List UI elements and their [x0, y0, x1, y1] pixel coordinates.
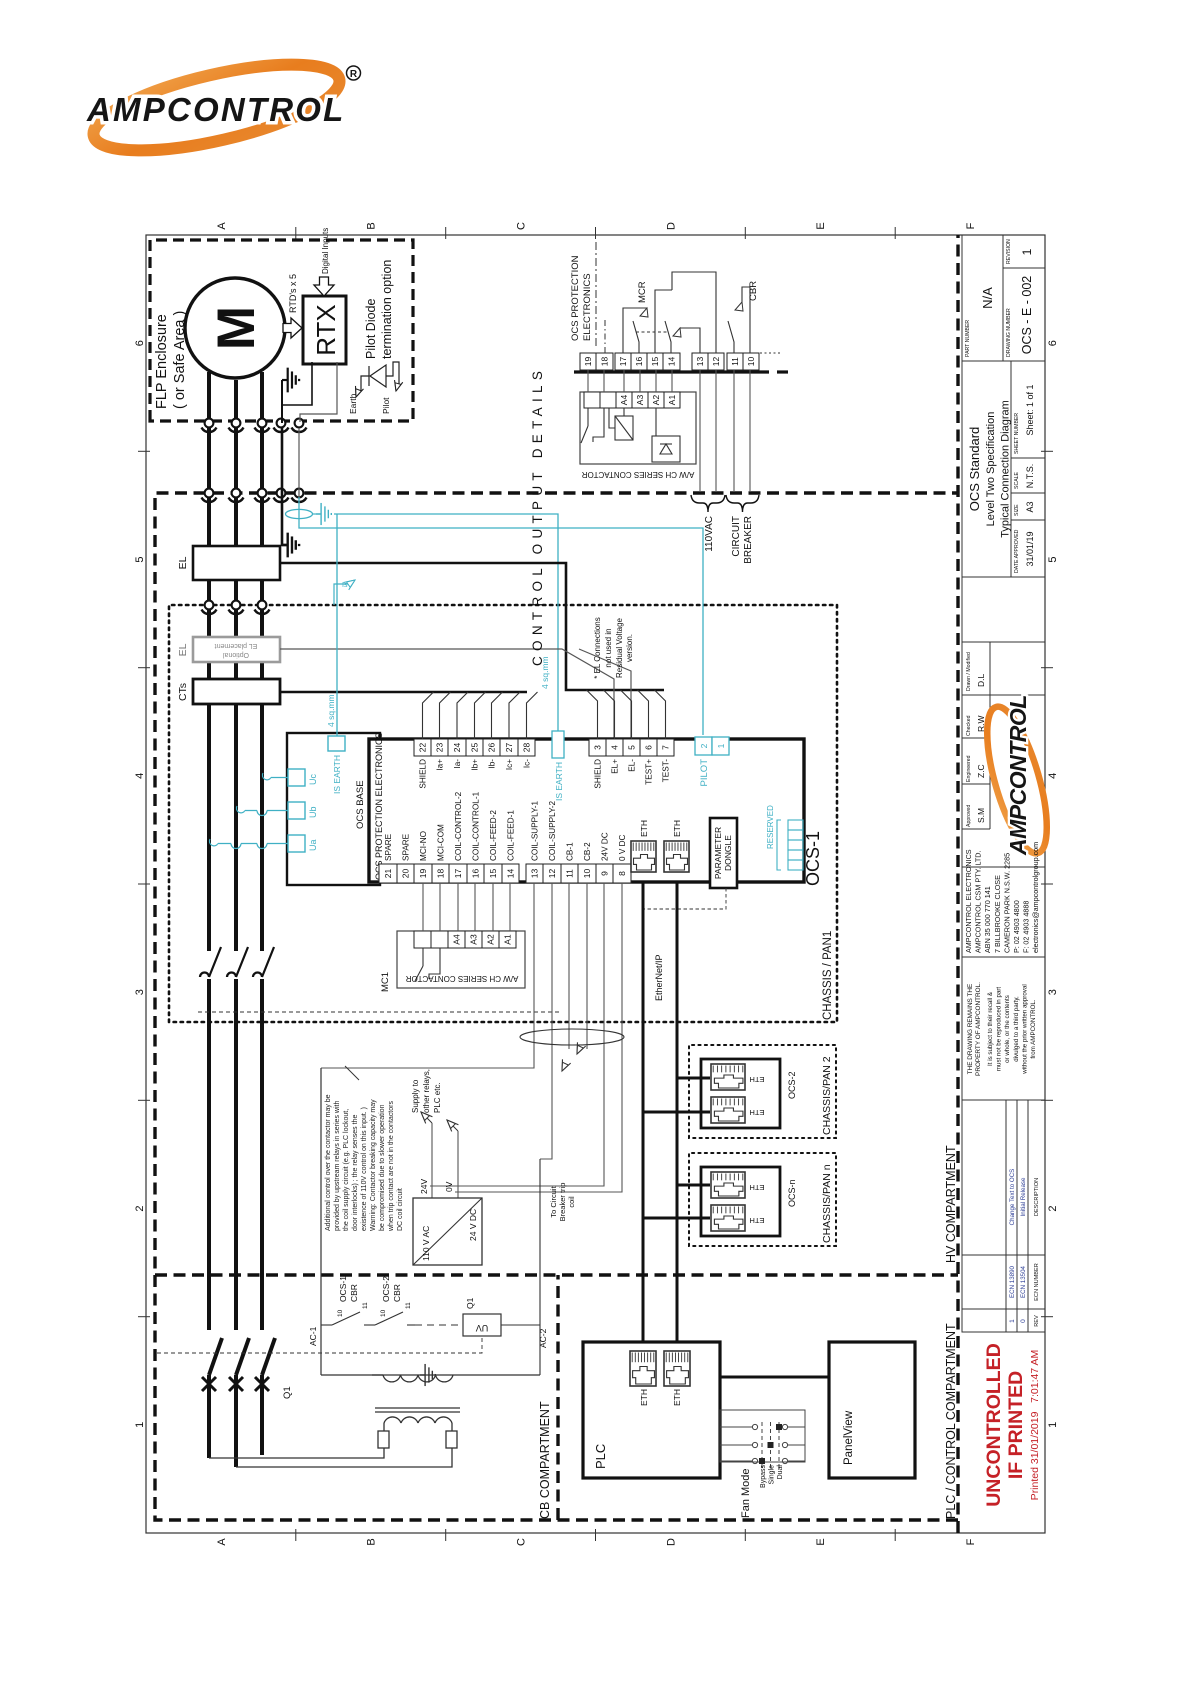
svg-text:CBR: CBR: [748, 281, 759, 301]
svg-text:ETH: ETH: [672, 820, 682, 837]
svg-text:Breaker trip: Breaker trip: [558, 1183, 567, 1222]
svg-text:7 BILLBROOKE CLOSE: 7 BILLBROOKE CLOSE: [993, 875, 1002, 953]
svg-text:24 V DC: 24 V DC: [468, 1209, 478, 1241]
svg-text:15: 15: [650, 357, 660, 367]
CHASSIS/PAN n: [689, 1153, 836, 1246]
svg-text:19: 19: [583, 357, 593, 367]
svg-text:A4: A4: [619, 395, 629, 406]
svg-text:OCS-1: OCS-1: [803, 831, 823, 886]
svg-text:2: 2: [699, 743, 709, 748]
svg-text:ETH: ETH: [672, 1389, 682, 1406]
EL bundle wire to OCS terminals 3-7: [280, 563, 664, 690]
svg-text:AMPCONTROL: AMPCONTROL: [1005, 695, 1031, 856]
svg-text:IS EARTH: IS EARTH: [332, 755, 342, 794]
CHASSIS/PAN 2: [689, 1045, 836, 1138]
svg-text:COIL-SUPPLY-2: COIL-SUPPLY-2: [548, 800, 557, 861]
svg-text:EL: EL: [177, 556, 189, 569]
svg-text:EL: EL: [177, 643, 189, 656]
svg-text:THE DRAWING REMAINS THE: THE DRAWING REMAINS THE: [967, 984, 974, 1075]
A/W CH series contactor (MC1 coil) box: [397, 931, 525, 988]
pilot termination diode: [361, 362, 399, 391]
svg-text:* EL Connections: * EL Connections: [593, 617, 602, 679]
svg-text:9: 9: [600, 871, 610, 876]
svg-text:5: 5: [627, 745, 637, 750]
svg-text:A1: A1: [667, 395, 677, 406]
svg-text:10: 10: [380, 1309, 387, 1317]
4 sq.mm IS earth cyan wire: [334, 514, 558, 731]
svg-text:OCS-2: OCS-2: [787, 1071, 797, 1099]
svg-text:4: 4: [1047, 773, 1059, 779]
svg-text:Pilot Diode: Pilot Diode: [364, 299, 378, 359]
MC1 auxiliary contact: [415, 948, 440, 981]
svg-text:A1: A1: [503, 934, 513, 945]
svg-text:OCS-1: OCS-1: [338, 1276, 348, 1302]
svg-text:A3: A3: [1025, 501, 1035, 512]
output terminal strip baseline: [574, 370, 769, 373]
drawing frame border: [146, 235, 1045, 1533]
svg-text:1: 1: [1020, 248, 1034, 255]
svg-text:AMPCONTROL: AMPCONTROL: [86, 91, 345, 128]
svg-text:MC1: MC1: [380, 972, 391, 992]
svg-text:SHIELD: SHIELD: [594, 759, 603, 789]
svg-text:from AMPCONTROL.: from AMPCONTROL.: [1030, 999, 1037, 1058]
svg-text:Ub: Ub: [308, 806, 318, 818]
control transformer: [209, 1375, 540, 1467]
svg-text:divulged to a third party,: divulged to a third party,: [1013, 996, 1020, 1062]
svg-text:COIL-FEED-2: COIL-FEED-2: [489, 810, 498, 861]
svg-text:110 V AC: 110 V AC: [421, 1226, 431, 1261]
svg-text:Supply to: Supply to: [411, 1079, 420, 1113]
MC1 coil wires from terminals 19-14: [423, 883, 510, 931]
svg-text:11: 11: [730, 357, 740, 366]
svg-text:FLP Enclosure: FLP Enclosure: [154, 314, 170, 409]
svg-text:5: 5: [1047, 556, 1059, 562]
three phase motor supply wires: [209, 372, 275, 1467]
svg-text:N/A: N/A: [980, 287, 995, 309]
svg-text:ABN 35 000 770 141: ABN 35 000 770 141: [983, 886, 992, 953]
pilot terminals 2,1 (cyan): [695, 737, 712, 755]
IS EARTH terminal (cyan): [552, 731, 564, 758]
svg-text:1: 1: [716, 743, 726, 748]
svg-text:DESCRIPTION: DESCRIPTION: [1034, 1178, 1040, 1216]
CTs box: [193, 679, 280, 704]
svg-text:AMPCONTROL CSM PTY. LTD.: AMPCONTROL CSM PTY. LTD.: [974, 850, 983, 953]
CHASSIS / PAN1 dotted boundary: [169, 605, 837, 1022]
svg-text:Q1: Q1: [282, 1386, 293, 1399]
svg-text:Ua: Ua: [308, 839, 318, 851]
RTX box: [303, 296, 346, 364]
svg-text:CB-1: CB-1: [566, 842, 575, 861]
svg-text:A: A: [216, 1538, 228, 1546]
svg-text:RESERVED: RESERVED: [766, 805, 775, 849]
cable bushings at boundary crossings: [205, 419, 214, 428]
svg-text:1: 1: [1047, 1422, 1059, 1428]
svg-text:16: 16: [634, 357, 644, 367]
PLC: [583, 1342, 720, 1478]
svg-text:EL-: EL-: [628, 759, 637, 772]
svg-text:R: R: [350, 69, 358, 80]
svg-text:REV: REV: [1034, 1315, 1040, 1327]
svg-text:B: B: [366, 222, 378, 229]
svg-text:CB COMPARTMENT: CB COMPARTMENT: [538, 1401, 552, 1519]
svg-text:It is subject to their recall: It is subject to their recall &: [987, 991, 994, 1066]
reserved connector (cyan): [777, 820, 803, 870]
svg-text:SHEET NUMBER: SHEET NUMBER: [1014, 413, 1020, 454]
svg-text:ETH: ETH: [750, 1183, 765, 1192]
svg-text:F: 02 4903 4888: F: 02 4903 4888: [1022, 901, 1031, 953]
svg-text:D: D: [665, 1538, 677, 1546]
svg-text:Ib+: Ib+: [471, 759, 480, 771]
MC1 mechanical linkage dashed: [198, 1011, 560, 1013]
svg-text:15: 15: [488, 869, 498, 879]
svg-text:11: 11: [362, 1302, 369, 1309]
svg-text:4: 4: [610, 745, 620, 750]
svg-text:must not be reproduced in part: must not be reproduced in part: [996, 987, 1003, 1072]
svg-text:Checked: Checked: [966, 715, 972, 736]
CBR relay contact: [728, 287, 750, 353]
earth ground inside FLP: [281, 380, 283, 423]
svg-text:IF PRINTED: IF PRINTED: [1005, 1371, 1027, 1479]
svg-text:P: 02 4903 4800: P: 02 4903 4800: [1012, 900, 1021, 953]
svg-text:OCS PROTECTION: OCS PROTECTION: [570, 255, 581, 341]
digital inputs arrow: [314, 277, 334, 296]
svg-text:AC-1: AC-1: [308, 1326, 318, 1346]
svg-text:A3: A3: [469, 934, 479, 945]
svg-text:or whole, or the contents: or whole, or the contents: [1004, 995, 1011, 1063]
svg-text:24V DC: 24V DC: [601, 832, 610, 861]
svg-text:Typical Connection Diagram: Typical Connection Diagram: [1000, 400, 1012, 538]
svg-text:CAMERON PARK N.S.W. 2285: CAMERON PARK N.S.W. 2285: [1002, 853, 1011, 953]
svg-text:19: 19: [418, 869, 428, 879]
svg-text:provided by upstream relays in: provided by upstream relays in series wi…: [334, 1101, 341, 1231]
svg-text:UV: UV: [476, 1323, 489, 1333]
svg-text:OCS-n: OCS-n: [787, 1179, 797, 1207]
svg-text:PLC: PLC: [593, 1444, 608, 1469]
svg-text:2: 2: [134, 1205, 146, 1211]
svg-text:PLC etc.: PLC etc.: [433, 1082, 442, 1113]
svg-text:SIZE: SIZE: [1014, 504, 1020, 516]
svg-text:the coil supply circuit (e.g.: the coil supply circuit (e.g. PLC lockou…: [343, 1109, 350, 1231]
svg-text:ECN 13890: ECN 13890: [1009, 1265, 1016, 1298]
svg-text:Residual Voltage: Residual Voltage: [615, 617, 624, 678]
svg-text:other relays,: other relays,: [422, 1069, 431, 1113]
FLP enclosure dashed boundary: [150, 240, 413, 421]
svg-text:ELECTRONICS: ELECTRONICS: [582, 273, 593, 341]
svg-text:3: 3: [593, 745, 603, 750]
optional EL gray wires to terminals 4,5: [280, 649, 631, 739]
OCS-1 protection electronics box: [369, 739, 804, 882]
svg-text:TEST-: TEST-: [662, 759, 671, 782]
svg-text:18: 18: [600, 357, 610, 367]
svg-text:22: 22: [418, 743, 428, 753]
svg-text:Sheet: 1 of 1: Sheet: 1 of 1: [1025, 384, 1035, 435]
svg-text:be compromised due to slower o: be compromised due to slower operation: [379, 1104, 386, 1231]
ethernet trunk wires: [643, 882, 710, 1350]
svg-text:28: 28: [522, 743, 532, 753]
svg-text:17: 17: [618, 357, 628, 367]
svg-text:10: 10: [337, 1309, 344, 1317]
svg-text:M: M: [207, 306, 266, 350]
svg-text:12: 12: [711, 357, 721, 367]
svg-text:10: 10: [582, 869, 592, 879]
IS earth ground (cyan): [313, 513, 321, 515]
OCS-1 ETH ports: [631, 841, 656, 872]
Q1 circuit breaker poles (X marks): [202, 1377, 216, 1391]
optional EL placement box (gray): [193, 637, 280, 662]
svg-text:6: 6: [134, 340, 146, 346]
svg-text:OCS - E - 002: OCS - E - 002: [1020, 276, 1034, 355]
svg-text:Z.C: Z.C: [976, 764, 986, 778]
svg-text:CONTROL OUTPUT DETAILS: CONTROL OUTPUT DETAILS: [530, 366, 545, 666]
svg-text:SHIELD: SHIELD: [419, 759, 428, 789]
svg-text:A: A: [216, 222, 228, 230]
svg-text:Warning: Contactor breaking ca: Warning: Contactor breaking capacity may: [370, 1099, 377, 1231]
earth wire to HV ground: [282, 427, 288, 545]
svg-text:110VAC: 110VAC: [704, 516, 715, 552]
svg-text:18: 18: [436, 869, 446, 879]
svg-text:A/W CH SERIES CONTACTOR: A/W CH SERIES CONTACTOR: [581, 470, 694, 479]
svg-text:ECN 13504: ECN 13504: [1020, 1265, 1027, 1298]
svg-text:Change Text to OCS: Change Text to OCS: [1009, 1169, 1016, 1226]
svg-text:coil: coil: [567, 1196, 576, 1208]
parameter dongle: [710, 818, 737, 888]
svg-text:ETH: ETH: [750, 1216, 765, 1225]
svg-text:SPARE: SPARE: [384, 833, 393, 861]
switchboard enclosure dashed boundary: [155, 235, 958, 1533]
svg-text:door interlocks) ; the relay s: door interlocks) ; the relay senses the: [352, 1115, 359, 1231]
to circuit breaker trip coil arrows: [558, 1059, 571, 1073]
svg-text:SPARE: SPARE: [402, 833, 411, 861]
title block Ampcontrol logo: [975, 695, 1059, 859]
svg-text:E: E: [815, 1538, 827, 1545]
motor M: [185, 278, 285, 378]
svg-text:Ic-: Ic-: [523, 759, 532, 768]
svg-text:0 V DC: 0 V DC: [618, 835, 627, 861]
svg-text:HV COMPARTMENT: HV COMPARTMENT: [944, 1145, 958, 1263]
svg-text:version.: version.: [625, 634, 634, 662]
svg-text:A/W CH SERIES CONTACTOR: A/W CH SERIES CONTACTOR: [405, 974, 518, 983]
svg-text:PART NUMBER: PART NUMBER: [965, 320, 971, 357]
svg-text:Initial Release: Initial Release: [1020, 1177, 1027, 1216]
OCS output terminals 21-8: [379, 864, 397, 883]
EL toroid box: [193, 546, 280, 580]
svg-text:CBR: CBR: [349, 1284, 359, 1302]
svg-text:OCS-2: OCS-2: [381, 1276, 391, 1302]
svg-text:N.T.S.: N.T.S.: [1025, 464, 1035, 489]
RTDs arrow motor to RTX: [283, 318, 302, 338]
svg-text:Ib-: Ib-: [488, 759, 497, 769]
svg-text:D.L: D.L: [976, 674, 986, 688]
110VAC to 24VDC power supply: [413, 1198, 482, 1265]
svg-text:D: D: [665, 222, 677, 230]
svg-text:not used in: not used in: [604, 628, 613, 667]
coil supply / CB / 24V wires: [321, 883, 622, 1192]
svg-text:4 sq.mm: 4 sq.mm: [326, 694, 336, 727]
svg-text:MCR: MCR: [637, 281, 648, 303]
svg-text:ETH: ETH: [639, 1389, 649, 1406]
svg-text:EtherNet/IP: EtherNet/IP: [654, 954, 664, 1001]
svg-text:Pilot: Pilot: [381, 397, 391, 414]
svg-text:3: 3: [134, 989, 146, 995]
svg-text:Printed 31/01/2019 7:01:47 A: Printed 31/01/2019 7:01:47 AM: [1029, 1350, 1041, 1501]
svg-text:BREAKER: BREAKER: [743, 516, 754, 564]
MC1 contactor poles: [200, 973, 209, 977]
svg-text:Uc: Uc: [308, 774, 318, 785]
svg-text:OCS Standard: OCS Standard: [967, 427, 982, 512]
svg-text:8: 8: [617, 871, 627, 876]
svg-text:13: 13: [530, 869, 540, 879]
A/W CH contactor (output details): [580, 392, 696, 464]
svg-text:11: 11: [565, 869, 575, 878]
svg-text:24: 24: [452, 743, 462, 753]
svg-text:REVISION: REVISION: [1006, 239, 1012, 264]
Ampcontrol company logo: [70, 45, 390, 170]
svg-text:without the prior written appr: without the prior written approval: [1021, 984, 1028, 1074]
svg-text:14: 14: [506, 869, 516, 879]
svg-text:UNCONTROLLED: UNCONTROLLED: [983, 1343, 1005, 1507]
svg-text:MCI-COM: MCI-COM: [437, 824, 446, 861]
svg-text:( or Safe Area ): ( or Safe Area ): [172, 311, 188, 409]
svg-text:electronics@ampcontrolgroup.co: electronics@ampcontrolgroup.com: [1031, 842, 1040, 953]
svg-text:A3: A3: [635, 395, 645, 406]
svg-text:MCI-NO: MCI-NO: [419, 831, 428, 861]
svg-text:11: 11: [405, 1302, 412, 1309]
svg-text:F: F: [965, 222, 977, 229]
svg-text:Q1: Q1: [465, 1297, 475, 1309]
svg-text:23: 23: [435, 743, 445, 753]
Q1 UV linkage dashed: [157, 1337, 482, 1353]
svg-text:Approved: Approved: [966, 805, 972, 827]
svg-text:21: 21: [383, 869, 393, 879]
svg-text:Drawn / Modified: Drawn / Modified: [966, 652, 972, 691]
contactor internals: aux contact, coil, diode: [581, 408, 680, 462]
svg-text:PanelView: PanelView: [843, 1410, 855, 1465]
output terminals 19-10: [580, 353, 596, 370]
svg-text:CIRCUIT: CIRCUIT: [731, 516, 742, 557]
svg-text:Dual: Dual: [777, 1465, 784, 1480]
CT terminal fan wires: [423, 692, 434, 739]
svg-text:ECN NUMBER: ECN NUMBER: [1034, 1263, 1040, 1301]
svg-text:TEST+: TEST+: [645, 759, 654, 785]
svg-text:12: 12: [547, 869, 557, 879]
svg-text:AMPCONTROL ELECTRONICS: AMPCONTROL ELECTRONICS: [964, 849, 973, 953]
svg-text:26: 26: [487, 743, 497, 753]
pilot wire to CBCT toroid: [298, 428, 300, 497]
CT terminals 22-28: [414, 739, 431, 756]
svg-text:ETH: ETH: [750, 1108, 765, 1117]
svg-text:Engineered: Engineered: [966, 755, 972, 782]
svg-text:0V: 0V: [444, 1181, 454, 1192]
supply to other relays arrows: [431, 1123, 433, 1198]
svg-text:16: 16: [471, 869, 481, 879]
svg-text:OCS BASE: OCS BASE: [355, 780, 366, 829]
CT bundle wire to OCS terminals 22-28: [280, 691, 527, 694]
svg-text:EL placement: EL placement: [215, 642, 258, 649]
svg-text:DC coil circuit: DC coil circuit: [397, 1188, 404, 1231]
svg-text:IS EARTH: IS EARTH: [554, 762, 564, 801]
svg-text:COIL-CONTROL-2: COIL-CONTROL-2: [454, 791, 463, 861]
transformer earth: [420, 1364, 435, 1386]
svg-text:Ia-: Ia-: [453, 759, 462, 769]
svg-text:EL+: EL+: [611, 759, 620, 774]
MCR relay contacts: [623, 272, 716, 353]
svg-text:A4: A4: [452, 934, 462, 945]
dash-dot stub above terminal 18: [604, 319, 606, 353]
svg-text:A2: A2: [486, 934, 496, 945]
svg-text:when trip contact are not in t: when trip contact are not in the contact…: [388, 1101, 395, 1232]
svg-text:SCALE: SCALE: [1014, 471, 1020, 489]
svg-text:31/01/19: 31/01/19: [1025, 531, 1035, 566]
svg-text:6: 6: [1047, 340, 1059, 346]
svg-text:F: F: [965, 1538, 977, 1545]
svg-text:10: 10: [746, 357, 756, 367]
svg-text:PLC / CONTROL COMPARTMENT: PLC / CONTROL COMPARTMENT: [944, 1323, 958, 1519]
svg-text:5: 5: [134, 556, 146, 562]
svg-text:27: 27: [504, 743, 514, 753]
svg-text:Bypass: Bypass: [760, 1465, 767, 1488]
svg-text:Optional: Optional: [223, 651, 250, 658]
svg-text:14: 14: [667, 357, 677, 367]
voltage inputs Ua Ub Uc: [288, 835, 305, 852]
svg-text:7: 7: [661, 745, 671, 750]
AC-1 wire: [320, 1068, 322, 1375]
svg-text:25: 25: [470, 743, 480, 753]
svg-text:Is: Is: [342, 582, 348, 589]
svg-text:DATE APPROVED: DATE APPROVED: [1014, 529, 1020, 573]
svg-text:existence of 110V control on t: existence of 110V control on this input.…: [361, 1107, 368, 1231]
svg-text:6: 6: [644, 745, 654, 750]
svg-text:DRAWING NUMBER: DRAWING NUMBER: [1006, 308, 1012, 357]
svg-text:COIL-SUPPLY-1: COIL-SUPPLY-1: [531, 800, 540, 861]
OCS-1 CBR / OCS-2 CBR / UV chain: [321, 1159, 540, 1375]
circuit breaker brace + label: [726, 495, 759, 512]
svg-text:S.M: S.M: [976, 808, 986, 823]
svg-text:CBR: CBR: [392, 1284, 402, 1302]
title block: [962, 235, 1045, 1332]
svg-text:To Circuit: To Circuit: [549, 1185, 558, 1217]
svg-text:CHASSIS / PAN1: CHASSIS / PAN1: [822, 931, 834, 1020]
svg-text:PILOT: PILOT: [699, 759, 710, 787]
svg-text:E: E: [815, 222, 827, 229]
svg-text:1: 1: [134, 1422, 146, 1428]
svg-text:CHASSIS/PAN n: CHASSIS/PAN n: [821, 1164, 833, 1243]
OCS BASE box: [287, 733, 380, 885]
IS EARTH stud on OCS BASE: [328, 736, 345, 751]
cable bundle ellipse: [520, 1029, 624, 1045]
svg-text:COIL-CONTROL-1: COIL-CONTROL-1: [472, 791, 481, 861]
svg-text:Digital Inputs: Digital Inputs: [321, 228, 330, 274]
110VAC brace + label: [691, 495, 725, 512]
svg-text:24V: 24V: [419, 1179, 429, 1194]
svg-text:1: 1: [1009, 1319, 1016, 1323]
Is current arrow (cyan): [334, 584, 348, 605]
svg-text:Single: Single: [769, 1465, 776, 1485]
svg-text:OCS PROTECTION ELECTRONICS: OCS PROTECTION ELECTRONICS: [374, 732, 384, 880]
svg-text:C: C: [516, 222, 528, 230]
svg-text:Additional control over the co: Additional control over the contactor ma…: [325, 1094, 332, 1231]
svg-text:RTD's x 5: RTD's x 5: [288, 274, 298, 313]
svg-text:B: B: [366, 1538, 378, 1545]
svg-text:COIL-FEED-1: COIL-FEED-1: [507, 810, 516, 861]
CBCT toroid (cyan): [286, 509, 313, 518]
svg-text:CHASSIS/PAN 2: CHASSIS/PAN 2: [821, 1056, 833, 1135]
svg-text:Level Two Specification: Level Two Specification: [985, 412, 997, 527]
svg-text:Earth: Earth: [348, 393, 358, 414]
PanelView: [829, 1342, 915, 1478]
svg-text:PROPERTY OF AMPCONTROL.: PROPERTY OF AMPCONTROL.: [975, 982, 982, 1076]
PLC to PanelView link: [720, 1376, 829, 1379]
svg-text:termination option: termination option: [380, 260, 394, 359]
